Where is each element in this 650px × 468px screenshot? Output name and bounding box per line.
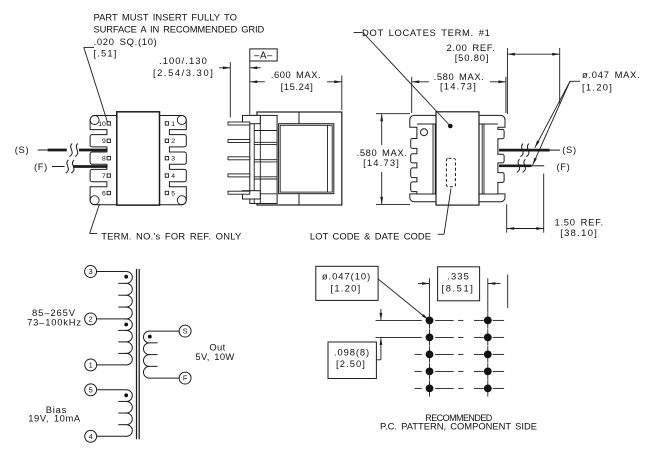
svg-text:.020 SQ.(10): .020 SQ.(10) <box>94 36 158 47</box>
svg-text:4: 4 <box>171 173 175 180</box>
svg-text:(S): (S) <box>15 144 29 155</box>
svg-text:5: 5 <box>89 385 93 394</box>
svg-text:[15.24]: [15.24] <box>281 81 314 92</box>
svg-text:[2.50]: [2.50] <box>336 358 366 369</box>
svg-text:[38.10]: [38.10] <box>560 227 598 238</box>
svg-text:.100/.130: .100/.130 <box>159 55 208 66</box>
svg-text:7: 7 <box>102 173 106 180</box>
svg-text:[.51]: [.51] <box>94 48 118 59</box>
svg-text:6: 6 <box>102 190 106 197</box>
svg-text:5V, 10W: 5V, 10W <box>195 351 234 362</box>
svg-text:P.C. PATTERN, COMPONENT SIDE: P.C. PATTERN, COMPONENT SIDE <box>380 421 537 432</box>
svg-text:19V, 10mA: 19V, 10mA <box>28 412 81 423</box>
svg-text:[14.73]: [14.73] <box>440 81 477 92</box>
svg-text:(S): (S) <box>562 144 576 155</box>
svg-text:3: 3 <box>89 267 93 276</box>
svg-text:9: 9 <box>102 138 106 145</box>
svg-text:1: 1 <box>89 361 93 370</box>
svg-text:LOT CODE & DATE CODE: LOT CODE & DATE CODE <box>310 230 431 241</box>
svg-text:(F): (F) <box>34 161 48 172</box>
svg-text:F: F <box>183 374 188 383</box>
svg-text:5: 5 <box>171 190 175 197</box>
svg-text:1: 1 <box>171 121 175 128</box>
svg-text:10: 10 <box>98 121 106 128</box>
svg-text:73–100kHz: 73–100kHz <box>27 316 82 327</box>
svg-text:PART MUST INSERT FULLY TO: PART MUST INSERT FULLY TO <box>94 12 237 23</box>
svg-text:[1.20]: [1.20] <box>330 282 361 293</box>
svg-text:1.50 REF.: 1.50 REF. <box>555 217 604 228</box>
svg-text:[2.54/3.30]: [2.54/3.30] <box>153 67 214 78</box>
svg-text:ø.047 MAX.: ø.047 MAX. <box>582 69 641 80</box>
svg-text:(F): (F) <box>557 161 571 172</box>
svg-text:TERM. NO.'s FOR REF. ONLY: TERM. NO.'s FOR REF. ONLY <box>101 230 242 241</box>
svg-text:.098(8): .098(8) <box>334 347 370 358</box>
svg-text:ø.047(10): ø.047(10) <box>322 271 371 282</box>
svg-text:S: S <box>183 327 188 336</box>
svg-text:2: 2 <box>89 315 93 324</box>
svg-text:[8.51]: [8.51] <box>442 282 475 293</box>
svg-text:.600 MAX.: .600 MAX. <box>271 69 321 80</box>
svg-text:[1.20]: [1.20] <box>582 81 613 92</box>
svg-text:.335: .335 <box>447 271 470 282</box>
svg-text:–A–: –A– <box>254 51 273 62</box>
svg-text:[50.80]: [50.80] <box>455 52 490 63</box>
svg-text:8: 8 <box>102 156 106 163</box>
svg-text:[14.73]: [14.73] <box>363 157 400 168</box>
svg-text:4: 4 <box>89 432 93 441</box>
svg-text:DOT LOCATES TERM. #1: DOT LOCATES TERM. #1 <box>362 27 491 38</box>
svg-text:2: 2 <box>171 138 175 145</box>
svg-text:3: 3 <box>171 156 175 163</box>
svg-text:SURFACE A IN RECOMMENDED GRID: SURFACE A IN RECOMMENDED GRID <box>94 23 265 34</box>
